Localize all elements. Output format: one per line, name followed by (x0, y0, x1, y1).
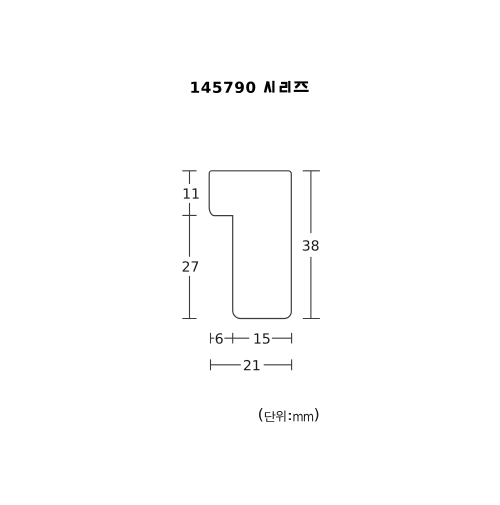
left dimension line segments (189, 171, 191, 319)
bottom dimension 6/15 ticks (211, 333, 292, 344)
bottom dimension 21 ticks (211, 359, 292, 370)
unit note "(" (259, 408, 263, 422)
unit note ")" (315, 408, 319, 422)
moulding profile outline (209, 171, 291, 319)
label 21 (244, 360, 260, 370)
bottom dimension 21 line segments (211, 364, 292, 366)
label 6 (216, 333, 223, 344)
unit note "m" (293, 414, 302, 422)
label 27 (183, 261, 199, 271)
title text "시" (265, 81, 273, 93)
unit note "m" (304, 414, 313, 422)
unit note "위" (276, 411, 286, 422)
right dimension line segments (310, 171, 312, 319)
label 11 (184, 188, 199, 198)
bottom dimension 6/15 line segments (211, 337, 292, 339)
unit note ":" (289, 413, 291, 420)
title text "145790" (191, 82, 255, 94)
label 15 (254, 333, 269, 343)
unit note "단" (265, 411, 276, 422)
label 38 (303, 240, 319, 251)
left dimension ticks (182, 171, 196, 319)
title text "리" (281, 81, 290, 93)
right dimension ticks (303, 171, 320, 319)
title text "즈" (294, 82, 309, 91)
